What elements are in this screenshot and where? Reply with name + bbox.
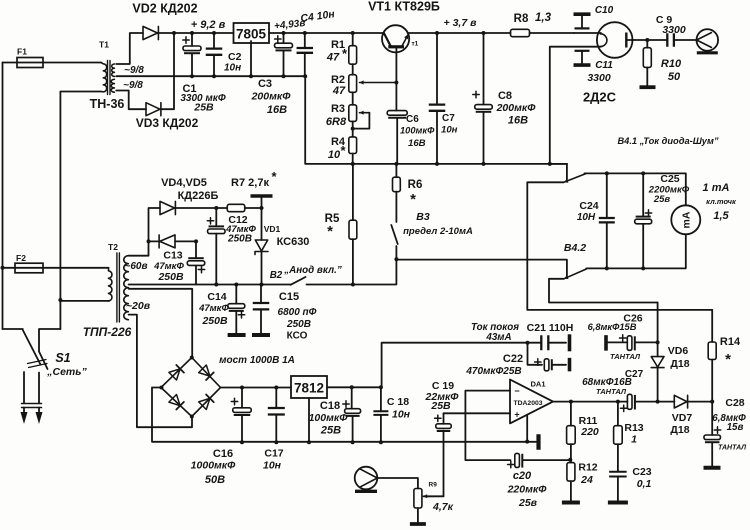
svg-text:Т2: Т2 [108, 242, 118, 252]
svg-text:С8: С8 [498, 90, 512, 102]
wire mains left pole [2, 63, 4, 330]
svg-text:43мА: 43мА [485, 332, 511, 343]
wire VD3 cathode up to +9.2 node [161, 33, 174, 109]
wire DA1 ground pin [525, 415, 529, 444]
wire DA1 output [553, 400, 627, 404]
capacitor C14 [228, 285, 245, 334]
label T1 [99, 40, 109, 50]
wire T2 primary bottom [58, 298, 109, 302]
svg-text:6,8мкФ15В: 6,8мкФ15В [588, 322, 637, 332]
svg-text:2Д2С: 2Д2С [583, 90, 617, 105]
wire 0V down to lower rail [305, 76, 567, 164]
wire R3-R4 [352, 121, 354, 136]
diode VD6 [651, 357, 664, 404]
svg-text:16В: 16В [508, 115, 528, 127]
capacitor C3 [275, 33, 293, 78]
label C20 [507, 470, 548, 509]
svg-text:S1: S1 [55, 351, 70, 365]
svg-text:7805: 7805 [236, 27, 267, 42]
svg-text:С3: С3 [258, 78, 272, 90]
switch B4.1 fixed [550, 164, 567, 180]
wire VD6 branch [656, 303, 660, 357]
potentiometer R2 [349, 75, 397, 93]
svg-text:*: * [340, 143, 346, 158]
zener VD1 [255, 208, 268, 287]
svg-text:кл.точк: кл.точк [706, 197, 737, 206]
svg-text:25в: 25в [653, 194, 671, 205]
ground main bus [536, 434, 540, 450]
wire 20V top to bridge [129, 289, 193, 358]
capacitor C20 [508, 453, 573, 467]
resistor R10 [643, 40, 651, 86]
wire secondary bottom to VD3 [116, 91, 146, 110]
svg-text:250В: 250В [286, 319, 311, 330]
svg-text:4,7к: 4,7к [432, 501, 454, 513]
svg-text:*: * [410, 191, 416, 208]
capacitor C19 [435, 413, 452, 496]
label R9 value [432, 501, 454, 513]
svg-text:R14: R14 [720, 336, 741, 348]
label C9 [656, 14, 686, 36]
wire inverting input [465, 391, 510, 461]
svg-text:10н: 10н [224, 63, 241, 74]
svg-text:6R8: 6R8 [326, 116, 347, 128]
label C14 [198, 291, 229, 327]
svg-text:100мкФ: 100мкФ [309, 412, 349, 424]
svg-text:~9/8: ~9/8 [124, 65, 144, 76]
label C23 [632, 466, 651, 490]
fuse F2 [1, 263, 109, 273]
svg-text:1,5: 1,5 [713, 210, 729, 222]
svg-text:50: 50 [668, 71, 681, 83]
label C17 [263, 448, 284, 472]
svg-text:ТАНТАЛ: ТАНТАЛ [718, 445, 746, 452]
capacitor C21 [528, 335, 567, 350]
label winding 9V lower [123, 80, 143, 91]
label +9,2V [191, 19, 226, 31]
label C2 [224, 51, 242, 74]
svg-text:В4.2: В4.2 [564, 242, 586, 254]
label winding 20V [126, 300, 151, 312]
capacitor C12 [207, 208, 225, 287]
svg-text:*: * [725, 351, 731, 368]
label VD2 [132, 2, 197, 16]
svg-text:„Анод вкл.”: „Анод вкл.” [283, 265, 342, 276]
svg-text:С11: С11 [595, 60, 613, 71]
ground R10 [640, 85, 656, 89]
svg-text:10н: 10н [263, 460, 282, 472]
wire to tube filament top [574, 32, 601, 34]
svg-text:100мкФ: 100мкФ [400, 126, 435, 136]
svg-text:В4.1 „Ток диода-Шум”: В4.1 „Ток диода-Шум” [617, 136, 718, 146]
wire T2 hv top [129, 208, 160, 256]
label TH-36 [90, 97, 125, 111]
label C26 [588, 313, 643, 362]
feedthrough C10 [574, 14, 591, 28]
label R3 [326, 103, 347, 128]
resistor R11 [567, 402, 576, 463]
label F1 [17, 47, 27, 57]
svg-text:мост 1000В 1А: мост 1000В 1А [219, 355, 295, 366]
wire +9.2V rail [174, 31, 233, 35]
wire 7812 out rail [327, 385, 383, 389]
svg-text:R10: R10 [661, 58, 682, 70]
switch B2 [291, 277, 306, 285]
label C3 [251, 78, 292, 116]
svg-text:С28: С28 [725, 397, 744, 409]
svg-text:3300: 3300 [662, 24, 686, 36]
label B4.1 [617, 136, 718, 146]
label C25 [648, 173, 690, 205]
capacitor C27 [621, 394, 675, 411]
svg-text:F2: F2 [16, 253, 26, 263]
svg-text:mA: mA [681, 211, 693, 228]
svg-text:0,1: 0,1 [637, 478, 652, 490]
label T2 [108, 242, 118, 252]
svg-text:R8: R8 [514, 13, 529, 25]
wire filament return riser [550, 47, 601, 164]
label C18b [387, 396, 411, 421]
label C6 [400, 114, 435, 149]
label R14 [720, 336, 741, 368]
wire VD4 out [175, 206, 227, 210]
svg-text:15в: 15в [727, 422, 744, 433]
label +4,93v [274, 18, 306, 32]
diode VD3 [146, 103, 161, 116]
svg-text:С10: С10 [595, 5, 614, 16]
wire mains right pole [60, 92, 101, 330]
svg-text:Д18: Д18 [670, 424, 689, 436]
svg-text:R12: R12 [578, 462, 597, 474]
svg-text:С18: С18 [320, 400, 340, 412]
svg-text:ТН-36: ТН-36 [90, 97, 125, 111]
label C19 [425, 380, 460, 412]
capacitor C1 [183, 33, 201, 78]
capacitor C26 [606, 335, 658, 351]
svg-text:16В: 16В [408, 138, 426, 149]
svg-text:С22: С22 [503, 353, 523, 365]
svg-text:КД226Б: КД226Б [178, 190, 219, 202]
svg-text:предел 2-10мА: предел 2-10мА [403, 226, 473, 237]
diode VD5 [147, 235, 199, 248]
node tube anode [645, 38, 649, 42]
svg-text:VD6: VD6 [668, 345, 689, 357]
capacitor C24 [599, 173, 615, 270]
label TPP-226 [83, 325, 132, 339]
svg-text:*: * [271, 169, 277, 184]
capacitor C4 [297, 33, 314, 78]
svg-text:VT1 КТ829Б: VT1 КТ829Б [368, 0, 440, 14]
svg-text:25В: 25В [430, 400, 451, 412]
svg-text:10Н: 10Н [577, 212, 596, 223]
label B3 [416, 211, 430, 223]
svg-text:3300: 3300 [587, 72, 611, 84]
svg-text:50В: 50В [205, 474, 225, 486]
label VT1 [368, 0, 440, 14]
svg-text:R13: R13 [624, 422, 643, 434]
resistor R4 [349, 137, 357, 164]
resistor R13 [614, 402, 623, 472]
label C24 [577, 200, 599, 223]
capacitor C13 [187, 241, 205, 284]
svg-text:+ 9,2 в: + 9,2 в [191, 19, 226, 31]
capacitor C8 [473, 33, 492, 164]
capacitor C23 [609, 472, 627, 501]
label VD4 VD5 [161, 177, 207, 189]
svg-text:200мкФ: 200мкФ [496, 102, 537, 114]
connector output jack [697, 29, 719, 53]
svg-text:R7 2,7к: R7 2,7к [231, 177, 269, 189]
wire 7805 gnd pin [249, 41, 253, 78]
svg-text:1,3: 1,3 [535, 12, 552, 24]
label C12 [225, 214, 256, 245]
label winding 9V upper [124, 65, 144, 76]
wire meter top line [584, 171, 685, 205]
wire +12V riser [382, 341, 530, 388]
svg-text:1: 1 [631, 434, 637, 446]
switch B4.2 lever [564, 269, 586, 279]
svg-text:1 mА: 1 mА [703, 182, 730, 194]
svg-text:470мкФ25В: 470мкФ25В [465, 366, 521, 377]
svg-text:10н: 10н [441, 125, 458, 136]
label R10 [661, 58, 682, 83]
diode VD2 [143, 26, 158, 39]
capacitor C25 [635, 173, 652, 270]
svg-text:220: 220 [580, 426, 599, 438]
svg-text:VD2 КД202: VD2 КД202 [132, 2, 197, 16]
wire B4.1 moving path [527, 182, 712, 310]
wire meter bottom line [586, 234, 686, 268]
label C15 [278, 291, 317, 342]
svg-text:220мкФ: 220мкФ [507, 484, 548, 496]
label C16 [191, 448, 236, 486]
svg-text:47мкФ: 47мкФ [198, 303, 229, 314]
svg-text:т1: т1 [412, 41, 419, 48]
label B3 range [403, 226, 473, 237]
capacitor C15 [253, 285, 270, 334]
svg-text:VD1: VD1 [264, 224, 281, 234]
IC 7805 [234, 23, 270, 43]
label R2 [331, 74, 346, 97]
resistor R1 [349, 33, 357, 75]
wire center tap bus [116, 75, 305, 77]
label C1 [180, 83, 225, 114]
diode VD7 [674, 395, 714, 408]
svg-text:7812: 7812 [294, 381, 324, 396]
svg-text:С7: С7 [442, 113, 455, 124]
wire hv bus [129, 283, 291, 287]
svg-text:С4 10н: С4 10н [300, 8, 336, 25]
label C21 [527, 322, 574, 334]
svg-text:„Сеть”: „Сеть” [46, 366, 87, 378]
label C13 [153, 250, 184, 284]
svg-text:24: 24 [580, 474, 593, 486]
wire noninverting input [444, 412, 511, 414]
bridge rectifier [161, 358, 221, 417]
wire secondary top to VD2 [116, 33, 143, 64]
label C22 [465, 353, 523, 377]
svg-text:Т1: Т1 [99, 40, 109, 50]
svg-text:~20в: ~20в [126, 300, 151, 312]
capacitor C2 [206, 33, 223, 78]
svg-text:47: 47 [332, 85, 346, 97]
label B2 [270, 265, 342, 281]
svg-text:*: * [327, 223, 333, 240]
svg-text:DA1: DA1 [530, 380, 545, 389]
label R12 [578, 462, 597, 487]
svg-text:250В: 250В [227, 234, 252, 245]
svg-text:TDA2003: TDA2003 [513, 400, 542, 407]
svg-text:~60в: ~60в [124, 261, 147, 272]
label R13 [624, 422, 643, 446]
switch B3 [391, 225, 398, 261]
label VD1 [264, 224, 310, 248]
capacitor C17 [268, 388, 285, 445]
label KD226 [178, 190, 219, 202]
svg-text:Д18: Д18 [670, 358, 689, 370]
fuse F1 [3, 58, 102, 68]
svg-text:В3: В3 [416, 211, 430, 223]
label most [219, 355, 295, 366]
svg-text:10н: 10н [392, 409, 411, 421]
ground C15 [252, 333, 270, 337]
capacitor C6 [387, 111, 407, 164]
svg-text:6800 пФ: 6800 пФ [278, 307, 317, 318]
label B4.2 [564, 242, 586, 254]
label +3,7v [444, 17, 478, 29]
svg-text:16В: 16В [267, 104, 287, 116]
svg-text:R9: R9 [429, 482, 438, 489]
wire bridge minus [152, 386, 536, 442]
svg-text:R3: R3 [331, 103, 345, 115]
svg-text:200мкФ: 200мкФ [251, 91, 292, 103]
svg-text:VD4,VD5: VD4,VD5 [161, 177, 207, 189]
svg-text:47: 47 [326, 52, 340, 64]
svg-text:КС630: КС630 [277, 236, 310, 248]
meter PA1 [671, 205, 700, 234]
svg-text:ТПП-226: ТПП-226 [83, 325, 132, 339]
node bridge ac bottom [190, 415, 194, 419]
svg-text:25В: 25В [193, 102, 214, 114]
label S1 [46, 351, 87, 378]
svg-text:С21 110Н: С21 110Н [527, 322, 574, 334]
svg-text:С17: С17 [264, 448, 283, 460]
label VD7 [670, 412, 692, 436]
transistor VT1 [382, 25, 419, 52]
label C10 [595, 5, 614, 16]
ground C21 [568, 334, 572, 351]
wire R2-R3 [352, 92, 354, 105]
svg-text:250В: 250В [157, 271, 184, 283]
label C11 [587, 60, 613, 84]
transformer T1 [101, 61, 114, 95]
svg-text:R6: R6 [408, 179, 423, 191]
wire VT1 base [394, 48, 398, 111]
wire bridge plus [221, 386, 292, 390]
label C8 [496, 90, 537, 127]
svg-text:С2: С2 [228, 51, 242, 63]
terminal bar above R7 node [251, 196, 273, 208]
svg-text:25В: 25В [320, 425, 341, 437]
svg-text:ТАНТАЛ: ТАНТАЛ [610, 352, 641, 361]
potentiometer R3 [349, 105, 370, 131]
connector input jack [355, 467, 378, 492]
node bridge ac top [190, 356, 194, 360]
potentiometer R9 [378, 478, 438, 524]
op-amp DA1 [510, 380, 553, 424]
svg-text:VD3 КД202: VD3 КД202 [136, 116, 199, 130]
ground C23 [608, 501, 628, 505]
ground C28 [704, 466, 721, 470]
svg-text:~9/8: ~9/8 [123, 80, 143, 91]
feedthrough C11 [574, 51, 591, 65]
wire VD2 cathode to node [159, 31, 176, 35]
svg-text:С25: С25 [660, 173, 679, 185]
svg-text:ТАНТАЛ: ТАНТАЛ [596, 387, 627, 396]
capacitor C28 [704, 402, 721, 466]
wire wiper line [424, 495, 444, 497]
wire emitter rail +3.7V [408, 31, 511, 35]
svg-text:−: − [514, 386, 519, 396]
svg-text:С14: С14 [207, 291, 226, 303]
wire 7812 gnd [307, 398, 311, 444]
label C28 [712, 397, 746, 452]
svg-text:С13: С13 [163, 250, 182, 262]
label C7 [441, 113, 458, 136]
resistor R14 [708, 310, 716, 402]
resistor R7 [227, 204, 263, 211]
label R8 [514, 12, 552, 25]
svg-text:с20: с20 [513, 470, 532, 482]
switch B4.1 lever [564, 174, 586, 183]
label R11 [579, 415, 599, 438]
resistor R8 [511, 29, 575, 36]
svg-text:С24: С24 [579, 200, 598, 212]
svg-text:+: + [514, 410, 519, 420]
svg-text:С6: С6 [406, 114, 419, 125]
ground C22 [568, 358, 572, 372]
label VD6 [668, 345, 690, 370]
capacitor C22 [528, 343, 567, 371]
transformer T2 [109, 253, 129, 322]
svg-text:С23: С23 [632, 466, 651, 478]
label R6 [408, 179, 423, 208]
node lower rail junctions [351, 162, 552, 166]
label R4 [328, 136, 347, 161]
label meter class [703, 182, 737, 222]
label R5 [325, 213, 340, 240]
wire 7805 out rail [269, 31, 384, 35]
ground R12 [562, 501, 580, 505]
capacitor C18b 10n [373, 387, 388, 444]
switch S1 [3, 329, 61, 424]
svg-text:F1: F1 [17, 47, 27, 57]
label R1 [326, 39, 348, 64]
capacitor C18 [343, 387, 361, 444]
svg-text:С16: С16 [213, 448, 233, 460]
svg-text:КСО: КСО [287, 331, 308, 342]
vacuum diode 2D2S [597, 22, 647, 58]
label C27 [582, 369, 643, 396]
wire B3 to B4.2 [396, 260, 567, 277]
svg-text:С 18: С 18 [387, 396, 409, 408]
IC 7812 [291, 376, 327, 398]
svg-text:250В: 250В [201, 315, 228, 327]
resistor R5 [349, 164, 357, 287]
svg-text:*: * [342, 46, 348, 61]
wire B4.2 moving path [549, 279, 658, 303]
ground C14 [228, 333, 246, 337]
